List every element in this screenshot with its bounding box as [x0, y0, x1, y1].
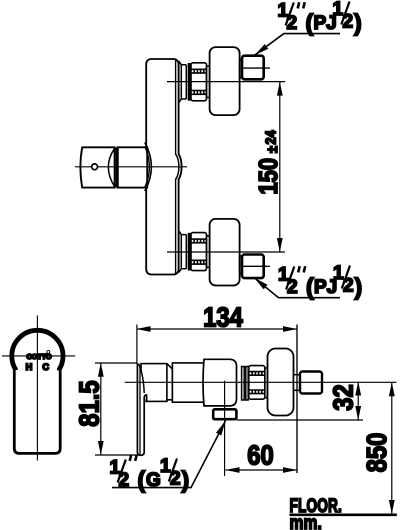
top inlet step ring	[207, 66, 210, 98]
top inlet knurled nut	[191, 63, 207, 101]
svg-text:24: 24	[261, 130, 278, 144]
svg-text:2: 2	[170, 469, 181, 490]
ring bottom opening erase	[18, 366, 57, 390]
knob joint thick line	[116, 147, 119, 187]
horizontal centerline	[2, 355, 75, 357]
svg-text:60: 60	[247, 439, 273, 471]
lever left edge	[137, 363, 146, 455]
bottom hex midline	[243, 265, 270, 267]
side neck	[294, 375, 301, 391]
dimension line 150	[279, 82, 281, 252]
svg-text:H: H	[26, 362, 33, 372]
outlet centerline vertical	[224, 381, 226, 476]
dimension line 134	[137, 328, 298, 330]
bottom inlet step ring	[207, 236, 210, 267]
svg-text:±: ±	[263, 146, 280, 153]
side knurled nut	[249, 366, 265, 400]
svg-text:2: 2	[343, 276, 354, 297]
leader bottom PJ label	[254, 278, 340, 298]
side step ring	[265, 368, 268, 398]
top hex fitting	[242, 56, 264, 80]
lever back curve	[139, 364, 145, 393]
bottom inlet extension line (150 dim, lower)	[167, 251, 285, 253]
handle escutcheon arcs	[145, 143, 152, 192]
top hex midline	[243, 67, 270, 69]
side view centerline	[125, 381, 397, 383]
arrow 81.5 down	[98, 441, 104, 455]
arrowhead top PJ	[255, 44, 269, 55]
joint ring	[167, 364, 173, 400]
pipe section 2	[172, 363, 204, 402]
svg-text:): )	[182, 467, 190, 493]
mixer body	[146, 59, 178, 275]
dimension line 850	[391, 382, 393, 514]
arrow 32 down	[355, 406, 361, 420]
knob end dome arc	[108, 148, 114, 187]
arrowhead G	[216, 421, 226, 436]
leader G label	[112, 421, 226, 488]
svg-text:): )	[354, 10, 362, 36]
arrow 60 right	[283, 467, 297, 473]
vertical centerline	[36, 315, 38, 460]
top inlet extension line (150 dim, upper)	[167, 81, 285, 83]
handle base cylinder	[118, 147, 147, 187]
svg-text:mm.: mm.	[290, 511, 323, 530]
label 1/2"(PJ1/2) top	[278, 0, 362, 36]
svg-text:): )	[355, 274, 363, 300]
svg-text:G: G	[146, 470, 161, 491]
lever inner line	[139, 367, 141, 454]
arrow 32 up	[355, 382, 361, 396]
top inlet lock bar	[188, 63, 191, 101]
arrow 850 down	[389, 500, 395, 514]
extension line 32 bottom / outlet bottom	[237, 419, 363, 421]
valve block	[203, 359, 237, 406]
svg-text:81.5: 81.5	[72, 380, 104, 426]
bottom eccentric neck	[240, 256, 242, 273]
svg-text:134: 134	[203, 301, 243, 333]
label 1/2"(G1/2)	[110, 455, 190, 493]
wall line	[296, 325, 298, 474]
dimension line 32	[357, 382, 359, 421]
floor line	[290, 513, 397, 516]
arrow 850 up	[389, 382, 395, 396]
side wall flange	[268, 349, 294, 416]
arrow down 150	[277, 238, 283, 252]
ext 134 left	[136, 325, 138, 364]
pipe section 1	[141, 364, 167, 402]
arrow 134 left	[137, 326, 151, 332]
top inlet wall flange	[210, 47, 240, 115]
svg-text:(: (	[306, 10, 314, 36]
arrow 60 left	[226, 467, 240, 473]
side collar rings	[242, 367, 249, 401]
text 150 with tolerance	[254, 130, 283, 195]
svg-text:(: (	[138, 467, 146, 493]
bottom inlet collar	[179, 231, 187, 273]
body right edge bump at cartridge (inner)	[176, 154, 179, 180]
label 1/2"(PJ1/2) bottom	[278, 263, 362, 300]
top eccentric neck	[240, 60, 242, 77]
svg-text:850: 850	[360, 433, 392, 473]
handle head ring	[12, 330, 63, 381]
svg-text:2: 2	[287, 13, 298, 34]
outlet fitting	[213, 409, 236, 419]
bottom inlet lock bar	[188, 233, 191, 271]
svg-text:2: 2	[287, 277, 298, 298]
body right edge gap for bump	[174, 155, 179, 179]
ext 81.5 top	[95, 362, 137, 364]
svg-text:C: C	[42, 362, 49, 372]
leader top PJ label	[255, 34, 341, 56]
dimension line 81.5	[100, 363, 102, 455]
dimension line 60	[226, 469, 298, 471]
bottom hex fitting	[242, 255, 264, 279]
handle knob	[80, 147, 114, 187]
arrow up 150	[277, 82, 283, 96]
handle shaft	[14, 370, 60, 453]
bottom inlet wall flange	[210, 219, 240, 286]
svg-text:(: (	[306, 274, 314, 300]
svg-text:2: 2	[119, 470, 130, 491]
body right edge bump at cartridge (outer)	[179, 154, 182, 180]
bottom inlet knurled nut	[191, 233, 207, 271]
body inner right edge line	[175, 60, 177, 274]
svg-text:2: 2	[343, 12, 354, 33]
arrowhead bottom PJ	[254, 278, 268, 290]
svg-text:150: 150	[254, 158, 283, 195]
side hex fitting	[300, 372, 322, 394]
side lever fill	[137, 364, 144, 456]
top inlet collar	[179, 61, 187, 103]
knob dot	[92, 164, 98, 170]
arrow 134 right	[283, 326, 297, 332]
arrow 81.5 up	[98, 363, 104, 377]
svg-text:32: 32	[327, 384, 359, 410]
ext 81.5 bottom	[95, 454, 143, 456]
handle centerline	[75, 166, 187, 168]
